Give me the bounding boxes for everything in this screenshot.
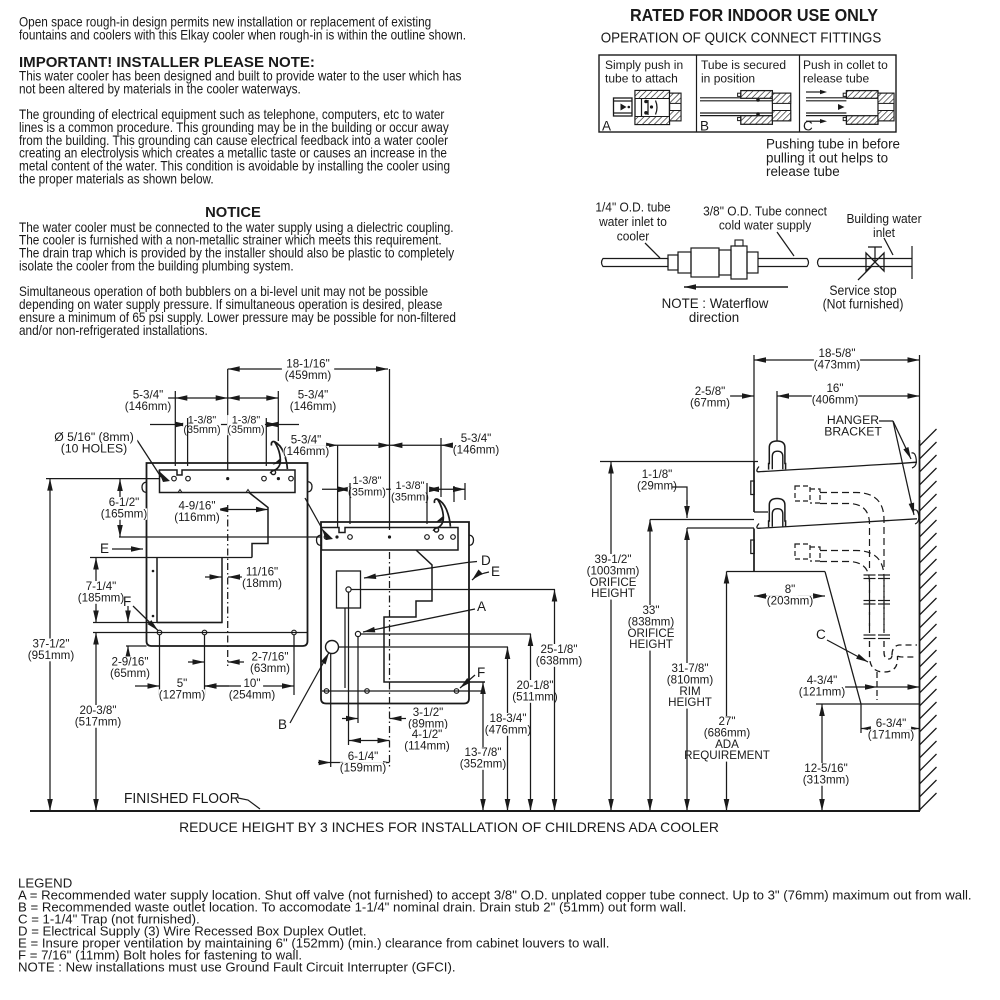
svg-text:20-3/8"(517mm): 20-3/8"(517mm)	[75, 704, 122, 728]
svg-text:pulling it out helps to: pulling it out helps to	[766, 150, 888, 165]
svg-text:18-5/8"(473mm): 18-5/8"(473mm)	[814, 347, 861, 371]
svg-text:F: F	[123, 594, 131, 609]
svg-text:(Not furnished): (Not furnished)	[823, 296, 904, 312]
svg-text:REDUCE HEIGHT BY 3 INCHES FOR: REDUCE HEIGHT BY 3 INCHES FOR INSTALLATI…	[179, 819, 719, 835]
svg-text:cooler: cooler	[617, 229, 650, 244]
svg-text:11/16"(18mm): 11/16"(18mm)	[242, 566, 282, 590]
svg-text:direction: direction	[689, 310, 739, 325]
svg-text:2-7/16"(63mm): 2-7/16"(63mm)	[250, 651, 290, 675]
svg-text:NOTE : Waterflow: NOTE : Waterflow	[662, 296, 769, 311]
svg-text:C: C	[816, 627, 826, 642]
svg-text:Simply push in: Simply push in	[605, 58, 683, 72]
svg-text:RATED FOR INDOOR USE ONLY: RATED FOR INDOOR USE ONLY	[630, 5, 878, 25]
svg-text:4-9/16"(116mm): 4-9/16"(116mm)	[174, 500, 220, 524]
svg-text:5"(127mm): 5"(127mm)	[159, 677, 206, 701]
svg-text:8"(203mm): 8"(203mm)	[767, 583, 814, 607]
svg-text:1-3/8"(35mm): 1-3/8"(35mm)	[183, 415, 220, 437]
svg-text:B: B	[278, 717, 287, 732]
svg-text:1-3/8"(35mm): 1-3/8"(35mm)	[391, 480, 429, 503]
svg-text:F: F	[477, 665, 485, 680]
svg-text:1-3/8"(35mm): 1-3/8"(35mm)	[227, 415, 264, 437]
svg-text:release tube: release tube	[766, 164, 840, 179]
svg-text:A: A	[602, 119, 611, 134]
svg-text:18-3/4"(476mm): 18-3/4"(476mm)	[485, 712, 532, 736]
svg-text:1-3/8"(35mm): 1-3/8"(35mm)	[348, 475, 386, 498]
svg-text:water inlet to: water inlet to	[598, 215, 667, 230]
svg-text:1-1/8"(29mm): 1-1/8"(29mm)	[637, 468, 677, 492]
svg-text:3/8" O.D. Tube connect: 3/8" O.D. Tube connect	[703, 204, 827, 219]
svg-text:20-1/8"(511mm): 20-1/8"(511mm)	[512, 679, 558, 703]
svg-text:and/or non-refrigerated instal: and/or non-refrigerated installations.	[19, 322, 208, 338]
svg-text:Tube is secured: Tube is secured	[701, 58, 786, 72]
svg-text:31-7/8"(810mm)RIMHEIGHT: 31-7/8"(810mm)RIMHEIGHT	[667, 662, 714, 709]
svg-text:release tube: release tube	[803, 71, 869, 85]
svg-text:not been altered by materials: not been altered by materials in the coo…	[19, 81, 301, 97]
svg-text:10"(254mm): 10"(254mm)	[229, 677, 276, 701]
svg-text:D: D	[481, 553, 491, 568]
svg-text:1/4" O.D. tube: 1/4" O.D. tube	[595, 200, 670, 215]
svg-text:27"(686mm)ADAREQUIREMENT: 27"(686mm)ADAREQUIREMENT	[684, 715, 770, 762]
svg-text:Building water: Building water	[846, 212, 921, 227]
svg-text:Ø 5/16" (8mm)(10 HOLES): Ø 5/16" (8mm)(10 HOLES)	[54, 430, 134, 455]
svg-text:in position: in position	[701, 71, 755, 85]
svg-text:2-5/8"(67mm): 2-5/8"(67mm)	[690, 385, 730, 409]
svg-text:Pushing tube in before: Pushing tube in before	[766, 137, 900, 152]
svg-text:25-1/8"(638mm): 25-1/8"(638mm)	[536, 643, 583, 667]
svg-text:12-5/16"(313mm): 12-5/16"(313mm)	[803, 762, 850, 786]
svg-text:2-9/16"(65mm): 2-9/16"(65mm)	[110, 656, 150, 680]
svg-text:18-1/16"(459mm): 18-1/16"(459mm)	[285, 358, 332, 382]
svg-text:E: E	[491, 564, 500, 579]
svg-text:E: E	[100, 541, 109, 556]
svg-text:B: B	[700, 119, 709, 134]
svg-text:NOTE : New installations must: NOTE : New installations must use Ground…	[18, 960, 456, 975]
svg-text:FINISHED FLOOR: FINISHED FLOOR	[124, 791, 240, 808]
svg-text:33"(838mm)ORIFICEHEIGHT: 33"(838mm)ORIFICEHEIGHT	[627, 604, 674, 651]
svg-text:37-1/2"(951mm): 37-1/2"(951mm)	[28, 638, 75, 662]
svg-text:cold water supply: cold water supply	[719, 218, 812, 233]
svg-text:the proper materials as shown: the proper materials as shown below.	[19, 171, 214, 187]
svg-text:Push in collet to: Push in collet to	[803, 58, 888, 72]
svg-text:A: A	[477, 599, 486, 614]
svg-text:isolate the cooler from the bu: isolate the cooler from the building plu…	[19, 258, 294, 274]
svg-text:OPERATION OF QUICK CONNECT FIT: OPERATION OF QUICK CONNECT FITTINGS	[601, 29, 882, 46]
svg-text:fountains and coolers with thi: fountains and coolers with this Elkay co…	[19, 27, 466, 43]
svg-text:tube to attach: tube to attach	[605, 71, 678, 85]
svg-text:3-1/2"(89mm): 3-1/2"(89mm)	[408, 706, 448, 730]
svg-text:13-7/8"(352mm): 13-7/8"(352mm)	[460, 746, 507, 770]
svg-text:16"(406mm): 16"(406mm)	[812, 382, 859, 406]
svg-text:HANGERBRACKET: HANGERBRACKET	[824, 413, 882, 438]
